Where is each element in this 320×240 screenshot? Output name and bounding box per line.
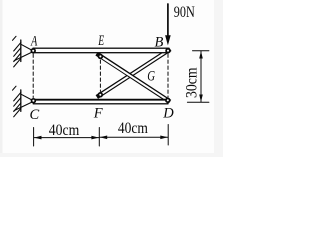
- svg-text:A: A: [30, 33, 37, 49]
- svg-text:F: F: [93, 106, 103, 122]
- svg-text:40cm: 40cm: [49, 122, 80, 139]
- svg-text:40cm: 40cm: [118, 120, 148, 137]
- svg-text:90N: 90N: [174, 4, 195, 21]
- svg-text:D: D: [162, 106, 174, 122]
- svg-text:B: B: [155, 34, 164, 50]
- svg-text:C: C: [30, 107, 40, 123]
- svg-text:G: G: [147, 69, 155, 85]
- svg-text:30cm: 30cm: [183, 68, 200, 99]
- svg-text:E: E: [98, 33, 105, 49]
